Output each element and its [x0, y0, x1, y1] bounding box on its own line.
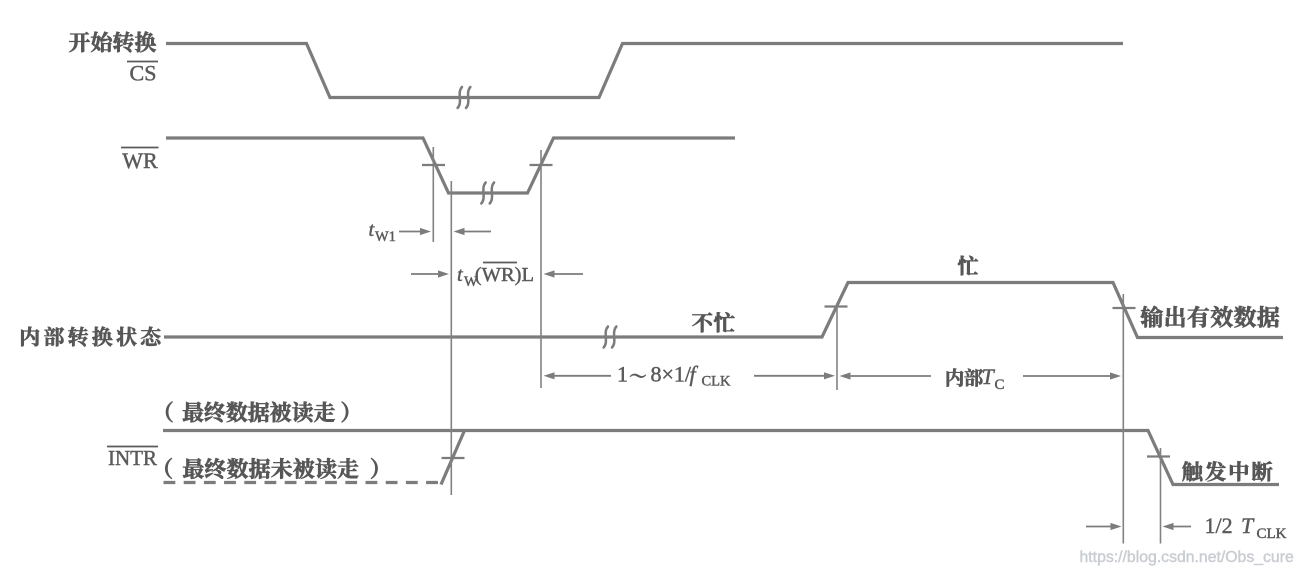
svg-text:CS: CS: [130, 61, 157, 86]
svg-text:https://blog.csdn.net/Obs_cure: https://blog.csdn.net/Obs_cure: [1080, 549, 1294, 566]
svg-text:CLK: CLK: [1257, 526, 1287, 542]
svg-text:INTR: INTR: [108, 446, 157, 470]
svg-text:T: T: [982, 364, 996, 389]
svg-text:8×1/: 8×1/: [651, 362, 692, 387]
svg-text:CLK: CLK: [702, 374, 732, 390]
svg-text:C: C: [995, 377, 1005, 393]
svg-text:T: T: [1241, 513, 1255, 538]
svg-text:(WR)L: (WR)L: [475, 264, 534, 286]
svg-text:1: 1: [617, 362, 628, 387]
svg-text:W1: W1: [375, 229, 396, 245]
svg-text:WR: WR: [122, 148, 158, 173]
svg-text:1/2: 1/2: [1205, 513, 1233, 538]
